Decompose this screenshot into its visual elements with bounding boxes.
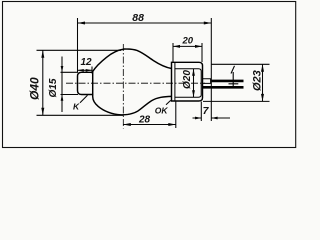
- dim 88/7 ext right: [210, 18, 212, 121]
- dim d15 ext bottom: [61, 94, 79, 96]
- dim d40 line: [42, 50, 44, 115]
- dim 12 line: [78, 69, 93, 71]
- dim 20 ext right: [201, 43, 203, 62]
- arrow d23 bottom: [261, 94, 264, 102]
- centerline horizontal: [66, 82, 205, 84]
- cap flange line: [174, 62, 176, 101]
- arrow 28 right: [168, 123, 176, 126]
- arrow 12 left: [78, 69, 84, 72]
- svg-text:28: 28: [138, 115, 151, 126]
- arrow d23 top: [261, 64, 264, 72]
- dim 88 ext left: [77, 18, 79, 72]
- dim 7 ext left: [200, 102, 202, 122]
- centerline vertical: [122, 44, 124, 129]
- svg-text:Ø20: Ø20: [182, 70, 193, 89]
- svg-text:K: K: [73, 102, 80, 112]
- dim 88 line: [78, 22, 212, 24]
- dim d15 ext top: [61, 71, 79, 73]
- lead wire bottom: [203, 86, 244, 89]
- exhaust nub K: [78, 72, 94, 94]
- dim 28 ext right: [175, 102, 177, 129]
- dim d15 line: [61, 57, 63, 113]
- dim 20 ext left: [172, 43, 174, 62]
- svg-text:20: 20: [182, 36, 194, 47]
- arrow d15 bottom: [61, 95, 64, 101]
- svg-text:Ø40: Ø40: [28, 77, 42, 100]
- leader OK: [166, 100, 171, 105]
- lead wire top: [211, 80, 244, 83]
- arrow 20 left: [173, 45, 180, 48]
- dim 7 line: [193, 117, 231, 119]
- arrow 20 right: [195, 45, 202, 48]
- dim d20 line: [193, 69, 195, 98]
- arrow 7 left: [195, 117, 201, 120]
- arrow d40 top: [41, 50, 44, 58]
- arrow d20 top: [192, 69, 195, 76]
- dim d40 ext bottom: [37, 114, 124, 116]
- border frame: [3, 2, 296, 148]
- arrow 88 right: [204, 22, 212, 25]
- arrow 7 right: [211, 117, 217, 120]
- arrow 12 right: [86, 69, 92, 72]
- dim d23 line: [262, 64, 264, 101]
- arrow d20 bottom: [192, 90, 195, 97]
- dim 20 line: [173, 45, 202, 47]
- arrow d15 top: [61, 66, 64, 72]
- dim d23 ext top: [211, 63, 269, 65]
- svg-text:OK: OK: [155, 106, 169, 116]
- bulb glass outline: [93, 49, 172, 115]
- wire mark glyph: [229, 66, 239, 87]
- seal stub: [203, 79, 211, 84]
- svg-text:88: 88: [132, 12, 144, 24]
- svg-text:Ø23: Ø23: [252, 70, 264, 91]
- leader K: [80, 95, 88, 102]
- arrow 88 left: [78, 22, 86, 25]
- cap inner contour: [175, 69, 201, 98]
- arrow 28 left: [123, 123, 131, 126]
- dim 28 line: [123, 124, 176, 126]
- dim 12 ext right: [91, 67, 93, 74]
- dim d40 ext top: [37, 49, 122, 51]
- svg-text:12: 12: [81, 57, 93, 68]
- arrow d40 bottom: [41, 108, 44, 116]
- cap outer shell: [172, 62, 203, 101]
- dim d23 ext bottom: [203, 100, 270, 102]
- svg-text:Ø15: Ø15: [48, 78, 59, 97]
